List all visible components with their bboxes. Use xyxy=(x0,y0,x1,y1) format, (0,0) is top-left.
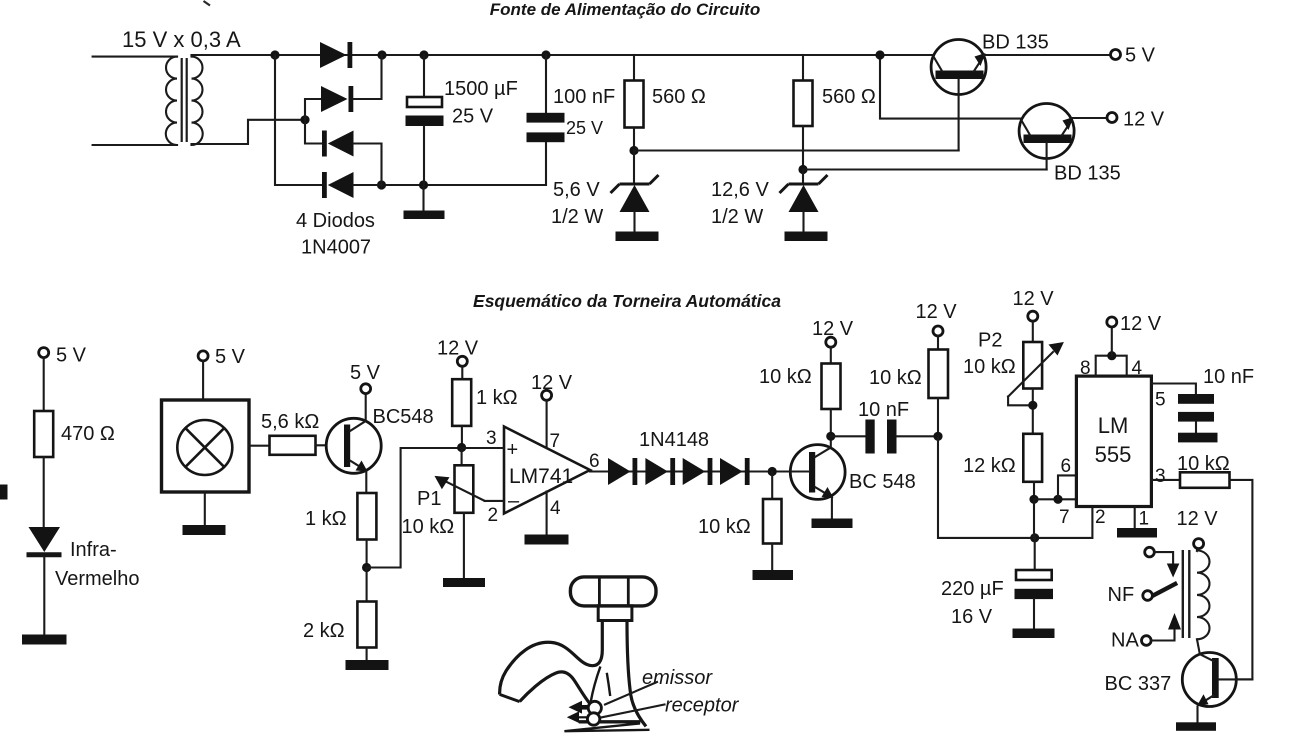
svg-text:1500 µF: 1500 µF xyxy=(444,78,518,100)
node R1 560 x634 xyxy=(629,146,638,155)
svg-text:receptor: receptor xyxy=(665,695,740,717)
terminal 12V R9 xyxy=(812,318,854,347)
resistor R8 10k pulldown xyxy=(763,472,782,571)
wire sensor top xyxy=(202,361,204,400)
wire pin5 xyxy=(1151,384,1196,411)
svg-text:6: 6 xyxy=(589,451,600,472)
relay contact NA xyxy=(1111,613,1181,652)
label BD135 top xyxy=(982,32,1049,54)
node R2 bottom xyxy=(798,165,807,174)
scan artifact left edge xyxy=(0,485,8,500)
svg-text:1N4007: 1N4007 xyxy=(301,237,371,259)
label 560 first xyxy=(652,86,706,108)
potentiometer P1 10k xyxy=(435,448,485,579)
ground zener2 xyxy=(785,232,828,242)
transformer T1 xyxy=(93,57,203,145)
svg-text:560 Ω: 560 Ω xyxy=(822,86,876,108)
label 10nF pin5 xyxy=(1203,366,1254,388)
svg-text:12 V: 12 V xyxy=(1120,313,1162,335)
svg-text:220 µF: 220 µF xyxy=(941,578,1004,600)
svg-text:2: 2 xyxy=(1095,507,1106,528)
resistor R9 10k collector xyxy=(822,347,841,436)
label 10k right xyxy=(869,367,922,389)
resistor R2 560 xyxy=(794,55,813,170)
resistor R7 1k xyxy=(452,366,471,447)
wire 12k node down to pin2 line xyxy=(1033,499,1035,538)
wire rail to Q2 collector xyxy=(880,55,1022,119)
svg-text:25 V: 25 V xyxy=(566,118,603,138)
svg-text:Esquemático da Torneira Automá: Esquemático da Torneira Automática xyxy=(473,291,781,311)
terminal 12V R7 xyxy=(437,338,479,367)
ground P1 xyxy=(443,578,485,587)
ground C5 xyxy=(1178,433,1218,443)
label BD135 bottom xyxy=(1054,163,1121,185)
svg-text:BC 548: BC 548 xyxy=(849,471,916,493)
node on rail x382 xyxy=(377,50,386,59)
svg-text:12 V: 12 V xyxy=(1013,288,1055,310)
svg-text:5,6 kΩ: 5,6 kΩ xyxy=(261,411,319,433)
node pin3 xyxy=(457,443,466,452)
svg-text:4 Diodos: 4 Diodos xyxy=(296,210,375,232)
node on rail x546 xyxy=(541,50,550,59)
node on rail x424 xyxy=(419,50,428,59)
emitter receptor leader lines xyxy=(601,682,665,718)
svg-text:1N4148: 1N4148 xyxy=(639,429,709,451)
svg-text:+: + xyxy=(507,439,519,461)
title Fonte de Alimentação do Circuito xyxy=(490,0,760,19)
capacitor C2 100nF xyxy=(527,55,565,142)
svg-text:10 kΩ: 10 kΩ xyxy=(759,366,812,388)
terminal 12V R10 xyxy=(916,301,958,336)
resistor R1 560 xyxy=(625,55,644,151)
terminal 12V LM741 pin7 xyxy=(531,372,573,400)
label 470 xyxy=(61,423,115,445)
wire 555 pins 8 4 bracket xyxy=(1080,356,1143,379)
wire secondary bottom to bridge midpoint xyxy=(192,120,306,144)
wire pin6 xyxy=(589,451,608,472)
diode D8 1N4148 xyxy=(720,458,750,485)
svg-text:5 V: 5 V xyxy=(350,362,381,384)
diode D2 1N4007 xyxy=(305,55,382,120)
node P2 wiper xyxy=(1028,401,1037,410)
diode D4 1N4007 xyxy=(275,55,382,198)
resistor R10 10k xyxy=(929,336,949,436)
label 220uF 16V xyxy=(941,578,1004,628)
svg-text:25 V: 25 V xyxy=(452,106,494,128)
svg-text:5 V: 5 V xyxy=(1125,45,1156,67)
svg-text:10 nF: 10 nF xyxy=(1203,366,1254,388)
transistor Q5 BC337 xyxy=(1182,653,1252,723)
node bottom rail x381 xyxy=(377,180,386,189)
label 1500 uF 25 V xyxy=(444,78,518,128)
svg-text:16 V: 16 V xyxy=(951,606,993,628)
diode D6 1N4148 xyxy=(645,458,675,485)
svg-text:12 V: 12 V xyxy=(437,338,479,360)
wire pin2 xyxy=(485,501,504,526)
svg-text:1 kΩ: 1 kΩ xyxy=(305,508,347,530)
faucet water arrows xyxy=(567,701,593,723)
node rail x880 xyxy=(875,50,884,59)
capacitor C1 1500uF xyxy=(406,55,444,185)
diode LED infrared xyxy=(27,527,62,635)
label 10nF coupling xyxy=(858,399,909,421)
svg-text:1/2 W: 1/2 W xyxy=(711,206,763,228)
wire zener2 node to Q2 base xyxy=(803,168,1047,170)
svg-text:8: 8 xyxy=(1080,358,1091,379)
ground pin1 xyxy=(1117,528,1157,538)
resistor R4 5,6k xyxy=(249,436,344,455)
node 12k bottom xyxy=(1029,495,1038,504)
svg-text:P1: P1 xyxy=(417,488,441,510)
wire pin6 step xyxy=(1058,456,1076,499)
svg-text:12 V: 12 V xyxy=(531,372,573,394)
transistor Q3 BC548 xyxy=(326,394,381,493)
resistor R12 10k pin3 xyxy=(1180,472,1252,679)
svg-text:3: 3 xyxy=(486,428,497,449)
op-amp U1 LM741 xyxy=(504,427,590,514)
zener diode Z2 12,6V xyxy=(780,170,828,232)
node bottom rail x423 xyxy=(419,180,428,189)
label 10k pulldown xyxy=(698,516,751,538)
svg-text:10 kΩ: 10 kΩ xyxy=(869,367,922,389)
svg-text:10 nF: 10 nF xyxy=(858,399,909,421)
svg-text:2: 2 xyxy=(488,505,499,526)
terminal 5V IR branch xyxy=(39,345,87,367)
node on rail x275 xyxy=(270,50,279,59)
title Esquemático da Torneira Automática xyxy=(473,291,781,311)
wire zener1 node to Q1 base xyxy=(634,149,959,151)
diode D7 1N4148 xyxy=(683,458,713,485)
label emissor xyxy=(642,667,713,689)
relay contact NF xyxy=(1108,584,1153,606)
IC U2 LM555 xyxy=(1076,376,1151,506)
svg-text:100 nF: 100 nF xyxy=(553,86,615,108)
svg-text:Vermelho: Vermelho xyxy=(55,568,140,590)
wire bottom rail xyxy=(382,142,547,185)
svg-text:12 V: 12 V xyxy=(916,301,958,323)
svg-text:NA: NA xyxy=(1111,630,1139,652)
resistor R5 1k emitter xyxy=(357,493,376,568)
label 10k pin3 xyxy=(1177,453,1230,475)
wire pin4 xyxy=(547,492,561,535)
label BC548 xyxy=(373,406,434,428)
svg-text:LM741: LM741 xyxy=(509,465,573,488)
label pin2 xyxy=(1095,507,1106,528)
label 100 nF 25 V xyxy=(553,86,615,138)
label 10k collector xyxy=(759,366,812,388)
svg-text:NF: NF xyxy=(1108,584,1135,606)
svg-text:BC 337: BC 337 xyxy=(1105,673,1172,695)
resistor R3 470 xyxy=(34,358,53,527)
wire pin7 xyxy=(547,400,560,452)
node pin6 step xyxy=(1053,495,1062,504)
terminal 5V out xyxy=(1111,45,1156,67)
scan artifact top xyxy=(204,1,211,6)
ground Q4 emitter xyxy=(812,519,853,529)
label pin7 xyxy=(1059,507,1070,528)
node bracket xyxy=(1107,351,1116,360)
svg-text:1/2 W: 1/2 W xyxy=(551,206,603,228)
node after chain xyxy=(768,467,777,476)
wire pin3 xyxy=(1151,466,1180,487)
svg-text:555: 555 xyxy=(1095,442,1132,467)
svg-text:4: 4 xyxy=(1132,358,1143,379)
label 4 Diodos 1N4007 xyxy=(296,210,375,259)
svg-text:BD 135: BD 135 xyxy=(1054,163,1121,185)
node divider xyxy=(362,563,371,572)
terminal 5V Q3 xyxy=(350,362,381,394)
capacitor C3 10nF coupling xyxy=(831,420,938,454)
label 1N4148 xyxy=(639,429,709,451)
ground R8 xyxy=(753,570,794,580)
ground 2k xyxy=(346,660,389,670)
resistor R11 12k xyxy=(1023,434,1042,500)
wire pin1 xyxy=(1135,507,1149,530)
svg-text:7: 7 xyxy=(550,431,561,452)
wire pin3 xyxy=(462,428,504,449)
svg-text:–: – xyxy=(508,490,520,512)
label 1k emitter xyxy=(305,508,347,530)
diode D5 1N4148 xyxy=(608,458,637,485)
svg-text:3: 3 xyxy=(1155,466,1166,487)
label 5,6k xyxy=(261,411,319,433)
relay RL1 coil xyxy=(1183,549,1210,655)
label 12k xyxy=(963,455,1016,477)
diode D1 1N4007 xyxy=(320,42,352,68)
svg-text:10 kΩ: 10 kΩ xyxy=(698,516,751,538)
label P2 10k xyxy=(963,330,1016,379)
svg-text:BD 135: BD 135 xyxy=(982,32,1049,54)
svg-text:P2: P2 xyxy=(978,330,1002,352)
label 1k top xyxy=(476,387,518,409)
label 560 second xyxy=(822,86,876,108)
svg-text:5: 5 xyxy=(1155,390,1166,411)
svg-text:Fonte de Alimentação do Circui: Fonte de Alimentação do Circuito xyxy=(490,0,760,19)
sensor box lamp receptor xyxy=(162,400,250,492)
label Infra-Vermelho xyxy=(55,539,140,590)
wire sensor bottom xyxy=(204,492,206,525)
ground IR branch xyxy=(22,635,67,645)
svg-text:560 Ω: 560 Ω xyxy=(652,86,706,108)
wire coupling node to pin2 xyxy=(938,436,1092,538)
svg-text:4: 4 xyxy=(550,498,561,519)
svg-text:BC548: BC548 xyxy=(373,406,434,428)
svg-text:10 kΩ: 10 kΩ xyxy=(1177,453,1230,475)
terminal 12V P2 xyxy=(1013,288,1055,321)
ground bridge xyxy=(404,185,445,219)
terminal 12V relay xyxy=(1177,508,1219,549)
svg-text:470 Ω: 470 Ω xyxy=(61,423,115,445)
svg-text:12 V: 12 V xyxy=(812,318,854,340)
svg-text:emissor: emissor xyxy=(642,667,713,689)
ground zener1 xyxy=(616,232,659,242)
svg-text:7: 7 xyxy=(1059,507,1070,528)
svg-text:1: 1 xyxy=(1139,509,1150,530)
svg-text:6: 6 xyxy=(1061,456,1072,477)
ground Q5 xyxy=(1176,722,1216,731)
wire divider to pin3 node xyxy=(367,448,462,568)
ground pin4 xyxy=(525,535,569,545)
svg-text:5 V: 5 V xyxy=(56,345,87,367)
resistor R6 2k xyxy=(357,568,376,661)
label receptor xyxy=(665,695,740,717)
terminal 5V sensor xyxy=(198,346,246,368)
label BC337 xyxy=(1105,673,1172,695)
terminal 12V 555 xyxy=(1107,313,1162,356)
svg-text:12 kΩ: 12 kΩ xyxy=(963,455,1016,477)
label 5,6V 1/2W xyxy=(551,179,603,228)
relay blade xyxy=(1152,583,1178,596)
svg-text:12 V: 12 V xyxy=(1123,109,1165,131)
svg-text:5,6 V: 5,6 V xyxy=(553,179,600,201)
zener diode Z1 5,6V xyxy=(611,151,659,232)
label 2k xyxy=(303,620,345,642)
wire pin7 net xyxy=(1034,498,1076,500)
transistor Q4 BC548 xyxy=(790,436,845,518)
wire top rail xyxy=(192,54,934,56)
transistor Q1 BD135 xyxy=(931,40,1110,151)
faucet drawing xyxy=(500,577,656,731)
svg-text:2 kΩ: 2 kΩ xyxy=(303,620,345,642)
capacitor C5 10nF pin5 xyxy=(1178,394,1214,433)
terminal 12V out xyxy=(1107,109,1165,131)
label 15 V x 0,3 A xyxy=(122,27,241,52)
svg-text:1 kΩ: 1 kΩ xyxy=(476,387,518,409)
potentiometer P2 10k xyxy=(1008,321,1064,434)
diode D3 1N4007 xyxy=(305,120,382,185)
capacitor C4 220uF xyxy=(1015,538,1054,629)
svg-text:12,6 V: 12,6 V xyxy=(711,179,769,201)
ground 220uF xyxy=(1013,629,1055,639)
svg-text:LM: LM xyxy=(1098,413,1129,438)
faucet droplets emitter receptor xyxy=(587,701,601,725)
label BC548 second xyxy=(849,471,916,493)
svg-text:10 kΩ: 10 kΩ xyxy=(402,516,455,538)
relay contact common xyxy=(1145,547,1180,577)
svg-text:15 V x 0,3 A: 15 V x 0,3 A xyxy=(122,27,241,52)
label 12,6V 1/2W xyxy=(711,179,769,228)
svg-text:5 V: 5 V xyxy=(215,346,246,368)
label P1 10k xyxy=(402,488,455,538)
ground sensor xyxy=(183,525,226,535)
transistor Q2 BD135 xyxy=(1019,104,1107,170)
svg-text:10 kΩ: 10 kΩ xyxy=(963,356,1016,378)
svg-text:Infra-: Infra- xyxy=(70,539,117,561)
node bridge mid xyxy=(300,115,309,124)
node 220uF xyxy=(1030,533,1039,542)
svg-text:12 V: 12 V xyxy=(1177,508,1219,530)
node Q4 collector xyxy=(826,432,835,441)
wire diode chain row xyxy=(605,470,791,472)
node coupling xyxy=(933,432,942,441)
